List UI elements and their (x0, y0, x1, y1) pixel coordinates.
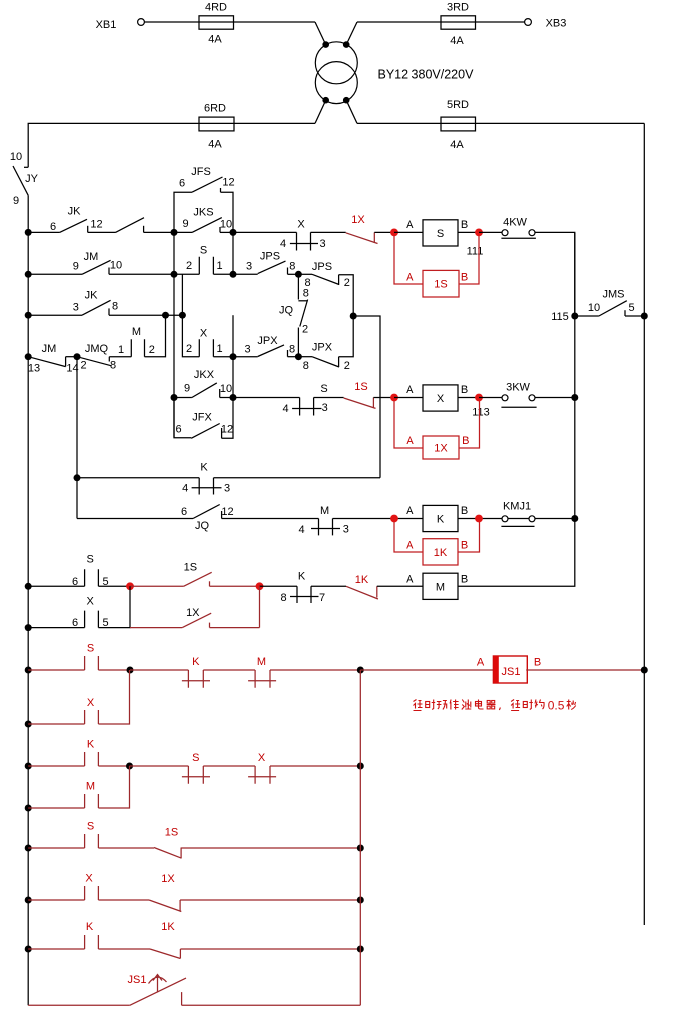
contact X (red) (28, 697, 98, 724)
wire (28, 231, 59, 233)
contact S (red) (28, 642, 98, 670)
wire (145, 315, 166, 357)
switch JS1 (time delay) (128, 974, 186, 1005)
svg-text:S: S (87, 642, 94, 654)
contact K (red) (28, 738, 98, 766)
relay coil M (406, 573, 468, 599)
svg-text:6: 6 (50, 221, 56, 233)
svg-text:A: A (477, 656, 485, 668)
junction (25, 805, 32, 812)
contact S (NC red) (182, 752, 210, 784)
svg-text:10: 10 (10, 151, 22, 163)
svg-text:JS1: JS1 (128, 974, 147, 986)
svg-text:4: 4 (182, 483, 188, 495)
svg-text:B: B (461, 384, 468, 396)
contact X (red) (28, 873, 98, 900)
switch JQ 6-12 (181, 505, 234, 532)
svg-text:8: 8 (303, 360, 309, 372)
contact M (NC red) (248, 656, 276, 688)
svg-text:10: 10 (110, 259, 122, 271)
svg-text:3: 3 (246, 260, 252, 272)
wire (28, 1004, 130, 1006)
svg-text:4RD: 4RD (205, 2, 227, 14)
svg-text:JY: JY (25, 173, 39, 185)
junction (295, 271, 302, 278)
junction (74, 474, 81, 481)
svg-text:2: 2 (149, 344, 155, 356)
junction (475, 394, 483, 402)
svg-text:K: K (87, 738, 95, 750)
wire (479, 231, 502, 233)
switch JKX 9-10 (174, 369, 232, 397)
wire (181, 847, 360, 849)
svg-text:X: X (200, 327, 208, 339)
wire (270, 765, 360, 767)
svg-text:1: 1 (118, 344, 124, 356)
wire (173, 232, 175, 437)
svg-text:S: S (320, 383, 327, 395)
svg-text:K: K (86, 921, 94, 933)
wire (535, 397, 575, 399)
transformer BY12 380V/220V (315, 22, 357, 123)
wire (28, 123, 315, 167)
wire (98, 847, 154, 849)
wire (130, 765, 189, 767)
wire (144, 231, 192, 233)
wire (180, 899, 360, 901)
junction (74, 353, 81, 360)
junction (127, 667, 134, 674)
wire (109, 273, 199, 275)
svg-text:K: K (437, 514, 445, 526)
svg-text:1S: 1S (165, 826, 178, 838)
junction (25, 229, 32, 236)
time relay JS1 (477, 656, 541, 683)
wire (203, 669, 255, 671)
junction (357, 897, 364, 904)
fuse 6RD (199, 102, 234, 150)
svg-text:3: 3 (224, 482, 230, 494)
switch JPX 3-8 (244, 335, 295, 357)
svg-text:2: 2 (80, 359, 86, 371)
relay coil S (406, 219, 468, 246)
switch 1S (344, 381, 376, 409)
svg-text:JPS: JPS (260, 250, 280, 262)
switch JM 13-14 (28, 343, 79, 375)
svg-text:4A: 4A (450, 139, 464, 151)
wire (394, 397, 423, 399)
svg-text:JS1: JS1 (502, 666, 521, 678)
svg-text:4: 4 (280, 238, 286, 250)
wire (288, 273, 299, 275)
contact S (red) (28, 820, 98, 848)
contact S 2-1 (186, 244, 223, 274)
svg-text:3RD: 3RD (447, 2, 469, 14)
svg-text:M: M (132, 326, 141, 338)
wire (311, 585, 346, 587)
svg-text:8: 8 (289, 260, 295, 272)
junction (126, 582, 134, 590)
wire (98, 586, 130, 627)
junction (357, 667, 364, 674)
wire (182, 1004, 361, 1006)
contact M (red) (28, 780, 98, 808)
switch JFX 6-12 (parallel branch) (174, 398, 233, 439)
svg-text:1X: 1X (351, 214, 365, 226)
wire (98, 765, 129, 767)
svg-text:X: X (87, 596, 95, 608)
junction (571, 394, 578, 401)
label: delay relay note (chinese) (414, 700, 545, 711)
junction node 113 (390, 394, 398, 402)
svg-text:9: 9 (183, 218, 189, 230)
svg-text:3: 3 (319, 238, 325, 250)
switch JM 9-10 (73, 251, 122, 274)
wire (98, 899, 149, 901)
svg-text:8: 8 (303, 288, 309, 300)
wire (76, 357, 78, 519)
wire (98, 585, 130, 587)
svg-text:X: X (85, 873, 93, 885)
junction (25, 312, 32, 319)
junction (25, 353, 32, 360)
svg-text:JM: JM (84, 251, 99, 263)
terminal XB1 (96, 19, 145, 31)
svg-text:JFX: JFX (192, 412, 212, 424)
svg-text:10: 10 (588, 302, 600, 314)
wire (28, 314, 82, 316)
wire (535, 232, 575, 316)
junction (256, 582, 264, 590)
svg-text:B: B (461, 573, 468, 585)
svg-text:A: A (406, 384, 414, 396)
svg-text:12: 12 (222, 176, 234, 188)
svg-text:B: B (461, 540, 468, 552)
wire (625, 315, 644, 317)
svg-text:JK: JK (68, 206, 82, 218)
wire (98, 670, 129, 724)
svg-text:9: 9 (13, 195, 19, 207)
svg-text:B: B (462, 435, 469, 447)
relay coil 1X (parallel) (394, 401, 480, 459)
wire (357, 122, 644, 124)
svg-text:8: 8 (280, 592, 286, 604)
relay coil K (406, 505, 468, 532)
svg-text:S: S (87, 554, 94, 566)
switch JQ 8-2 (vertical) (279, 274, 309, 356)
svg-text:A: A (406, 505, 414, 517)
svg-text:1: 1 (216, 343, 222, 355)
svg-text:1X: 1X (434, 443, 448, 455)
switch JMQ 2-8 (77, 343, 116, 372)
contact S 6-5 (28, 554, 108, 588)
fuse 5RD (441, 99, 476, 151)
relay coil 1K (parallel) (394, 522, 480, 565)
switch JK 6-12 (50, 206, 103, 233)
svg-text:M: M (320, 505, 329, 517)
fuse 3RD (441, 2, 476, 47)
svg-text:7: 7 (319, 592, 325, 604)
svg-text:A: A (406, 573, 414, 585)
wire (333, 518, 424, 520)
svg-text:S: S (192, 752, 199, 764)
terminal XB3 (525, 17, 567, 29)
wire (357, 21, 525, 23)
svg-text:1S: 1S (434, 279, 447, 291)
junction (25, 763, 32, 770)
junction (25, 721, 32, 728)
relay coil X (406, 384, 468, 411)
contact S 4-3 (NC) (283, 383, 328, 416)
junction (390, 515, 398, 523)
junction (25, 667, 32, 674)
svg-text:2: 2 (186, 343, 192, 355)
wire (458, 233, 575, 586)
svg-text:2: 2 (344, 277, 350, 289)
junction node 111 (390, 229, 398, 237)
wire (220, 231, 233, 233)
svg-text:1K: 1K (434, 547, 448, 559)
junction (25, 845, 32, 852)
svg-text:JPX: JPX (257, 335, 278, 347)
svg-text:4A: 4A (208, 33, 222, 45)
wire (28, 273, 82, 275)
wire (232, 315, 234, 357)
svg-text:B: B (461, 219, 468, 231)
svg-text:B: B (534, 656, 541, 668)
wire (458, 397, 479, 399)
junction (25, 271, 32, 278)
svg-text:JKS: JKS (193, 206, 213, 218)
switch JY (10, 151, 39, 207)
svg-text:M: M (436, 581, 445, 593)
contact M 1-2 (118, 326, 155, 357)
junction (475, 229, 483, 237)
svg-text:JPS: JPS (312, 261, 332, 273)
svg-text:10: 10 (220, 218, 232, 230)
wire (314, 397, 344, 399)
svg-text:4A: 4A (450, 35, 464, 47)
switch KMJ1 (501, 501, 535, 527)
wire (88, 231, 116, 233)
svg-text:S: S (437, 228, 444, 240)
svg-text:6: 6 (175, 423, 181, 435)
svg-text:A: A (406, 540, 414, 552)
switch (unlabeled) (116, 218, 145, 233)
svg-text:115: 115 (551, 311, 569, 323)
svg-text:XB3: XB3 (546, 17, 567, 29)
svg-text:JFS: JFS (191, 166, 211, 178)
svg-text:2: 2 (186, 260, 192, 272)
svg-text:JK: JK (85, 290, 99, 302)
svg-text:K: K (192, 656, 200, 668)
svg-text:8: 8 (112, 300, 118, 312)
svg-text:JQ: JQ (195, 520, 210, 532)
svg-text:K: K (298, 571, 306, 583)
junction (126, 763, 133, 770)
svg-text:6: 6 (72, 576, 78, 588)
junction (641, 667, 648, 674)
svg-text:A: A (406, 219, 414, 231)
switch 1S (130, 562, 260, 587)
svg-text:XB1: XB1 (96, 19, 117, 31)
svg-text:8: 8 (289, 343, 295, 355)
contact X 6-5 (28, 596, 108, 630)
wire (130, 669, 188, 671)
switch JPS 3-8 (246, 250, 295, 274)
wire (203, 765, 255, 767)
junction (357, 946, 364, 953)
wire (353, 316, 380, 478)
switch JFS 6-12 (parallel branch) (174, 166, 235, 232)
svg-text:JPX: JPX (312, 341, 333, 353)
contact X 4-3 (NC) (280, 218, 326, 250)
svg-text:3: 3 (343, 524, 349, 536)
svg-text:1: 1 (216, 260, 222, 272)
svg-text:M: M (257, 656, 266, 668)
svg-text:9: 9 (184, 382, 190, 394)
wire (77, 518, 193, 520)
junction (179, 312, 186, 319)
wire (66, 356, 77, 358)
junction (162, 312, 169, 319)
svg-text:B: B (461, 272, 468, 284)
svg-text:9: 9 (73, 260, 79, 272)
svg-text:113: 113 (472, 406, 490, 418)
switch JK 3-8 (73, 290, 118, 316)
switch 1X (red) (149, 873, 181, 911)
svg-text:12: 12 (90, 219, 102, 231)
wire (213, 356, 257, 358)
svg-text:3: 3 (244, 343, 250, 355)
svg-text:0.5: 0.5 (548, 699, 565, 713)
switch 1S (red) (154, 826, 182, 858)
wire (311, 231, 346, 233)
wire middle rail (359, 670, 361, 1005)
wire left rail (27, 195, 29, 1005)
svg-text:X: X (297, 218, 305, 230)
wire (394, 231, 423, 233)
svg-text:6: 6 (181, 506, 187, 518)
wire (260, 585, 298, 587)
junction (171, 271, 178, 278)
switch 4KW (501, 216, 536, 238)
contact K (red) (28, 921, 98, 949)
wire (374, 231, 394, 233)
svg-text:5RD: 5RD (447, 99, 469, 111)
svg-text:6: 6 (179, 177, 185, 189)
junction (357, 845, 364, 852)
svg-text:111: 111 (467, 245, 484, 257)
switch JPS 8-2 (to node rail) (298, 261, 353, 316)
junction (230, 394, 237, 401)
contact X (NC red) (248, 752, 276, 784)
svg-text:K: K (200, 461, 208, 473)
junction (641, 313, 648, 320)
junction (171, 394, 178, 401)
wire (288, 356, 299, 358)
svg-text:S: S (87, 820, 94, 832)
junction (295, 353, 302, 360)
wire (233, 397, 300, 399)
wire (98, 766, 129, 808)
junction (25, 624, 32, 631)
junction (357, 763, 364, 770)
wire (213, 273, 257, 275)
wire (98, 948, 150, 950)
svg-text:6RD: 6RD (204, 102, 226, 114)
svg-text:4KW: 4KW (503, 216, 527, 228)
switch 1X (130, 607, 260, 628)
junction (171, 229, 178, 236)
svg-text:1S: 1S (354, 381, 367, 393)
junction (475, 515, 483, 523)
junction (25, 946, 32, 953)
junction (25, 897, 32, 904)
svg-text:1X: 1X (186, 607, 200, 619)
svg-text:2: 2 (302, 323, 308, 335)
svg-text:X: X (87, 697, 95, 709)
wire (232, 232, 234, 274)
wire (222, 518, 319, 520)
svg-text:2: 2 (344, 360, 350, 372)
svg-text:3KW: 3KW (506, 381, 530, 393)
wire (479, 397, 502, 399)
svg-text:JKX: JKX (194, 369, 215, 381)
contact X 2-1 (186, 327, 223, 356)
svg-text:B: B (461, 505, 468, 517)
fuse 4RD (199, 2, 234, 46)
svg-text:6: 6 (72, 617, 78, 629)
svg-text:M: M (86, 780, 95, 792)
svg-text:KMJ1: KMJ1 (503, 501, 531, 513)
wire (98, 669, 130, 671)
contact M 4-3 (NC) (298, 505, 348, 536)
wire (270, 669, 360, 671)
svg-text:1K: 1K (161, 921, 175, 933)
wire (233, 231, 297, 233)
svg-text:10: 10 (220, 383, 232, 395)
switch 1K (red) (150, 921, 180, 959)
svg-text:S: S (200, 244, 207, 256)
junction (230, 271, 237, 278)
svg-text:8: 8 (110, 360, 116, 372)
contact K 8-7 (NC) (280, 571, 325, 604)
junction (571, 515, 578, 522)
wire (182, 315, 199, 357)
junction (350, 313, 357, 320)
switch 1K (346, 574, 423, 599)
wire (77, 477, 199, 479)
svg-text:JM: JM (42, 343, 57, 355)
wire (373, 397, 394, 399)
svg-text:13: 13 (28, 362, 40, 374)
svg-text:X: X (258, 752, 266, 764)
svg-text:BY12 380V/220V: BY12 380V/220V (378, 67, 475, 81)
contact K (NC red) (182, 656, 210, 688)
junction (230, 229, 237, 236)
svg-text:5: 5 (628, 302, 634, 314)
wire (181, 274, 183, 315)
junction (25, 583, 32, 590)
wire (220, 397, 233, 399)
wire (109, 356, 131, 358)
svg-text:JMS: JMS (603, 289, 625, 301)
relay coil 1S (parallel) (394, 236, 479, 297)
svg-text:4: 4 (283, 403, 289, 415)
svg-text:4A: 4A (208, 138, 222, 150)
switch JPX 8-2 (to node rail) (298, 316, 353, 372)
